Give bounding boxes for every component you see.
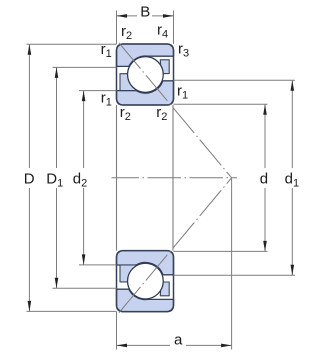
svg-text:r2: r2 bbox=[156, 104, 167, 123]
d dimension bottom arrow bbox=[263, 241, 267, 252]
B dimension line bbox=[117, 15, 138, 17]
d extension line top bbox=[174, 103, 268, 105]
a dimension right arrow bbox=[221, 344, 232, 348]
D1 dimension top arrow bbox=[55, 67, 59, 78]
D dimension top arrow bbox=[28, 44, 32, 55]
svg-text:d2: d2 bbox=[73, 170, 87, 189]
contact angle line bottom bbox=[119, 178, 232, 313]
B dimension right arrow bbox=[163, 14, 174, 18]
B extension line left bbox=[116, 11, 118, 45]
svg-text:r2: r2 bbox=[121, 23, 132, 42]
svg-text:d: d bbox=[260, 170, 268, 187]
d2 extension line bottom bbox=[79, 264, 117, 266]
svg-text:D1: D1 bbox=[46, 170, 63, 189]
axis centerline bbox=[112, 177, 238, 179]
D1 extension line top bbox=[53, 66, 117, 68]
d1 dimension top arrow bbox=[291, 80, 295, 91]
svg-text:r1: r1 bbox=[101, 89, 112, 108]
d1 dimension line bbox=[291, 80, 293, 168]
d dimension line bbox=[264, 104, 266, 168]
D extension line top bbox=[27, 43, 117, 45]
d dimension top arrow bbox=[263, 104, 267, 115]
pressure-centre vertical line bbox=[231, 179, 233, 350]
svg-text:r1: r1 bbox=[177, 83, 188, 102]
svg-text:D: D bbox=[24, 170, 35, 187]
d1 extension line bottom bbox=[174, 274, 296, 276]
D dimension line bbox=[28, 44, 30, 168]
D dimension bottom arrow bbox=[28, 301, 32, 312]
a extension line left bbox=[116, 312, 118, 350]
D1 dimension line bbox=[56, 67, 58, 168]
D1 dimension bottom arrow bbox=[55, 278, 59, 289]
svg-text:r3: r3 bbox=[178, 41, 189, 60]
d2 extension line top bbox=[79, 90, 117, 92]
svg-text:B: B bbox=[140, 4, 150, 21]
bore silhouette left line bbox=[116, 105, 118, 251]
svg-text:r4: r4 bbox=[157, 22, 168, 41]
bore silhouette right line bbox=[172, 105, 174, 251]
d2 dimension top arrow bbox=[82, 91, 86, 102]
a dimension line bbox=[117, 344, 171, 346]
D extension line bottom bbox=[27, 310, 117, 312]
B extension line right bbox=[173, 11, 175, 45]
top bearing section bbox=[117, 44, 174, 105]
svg-text:r2: r2 bbox=[120, 104, 131, 123]
d1 extension line top bbox=[174, 79, 296, 81]
d2 dimension line bbox=[83, 91, 85, 168]
d1 dimension bottom arrow bbox=[291, 265, 295, 276]
B dimension left arrow bbox=[117, 14, 128, 18]
bottom bearing section (mirrored) bbox=[117, 251, 174, 312]
a dimension left arrow bbox=[117, 344, 128, 348]
d extension line bottom bbox=[174, 250, 268, 252]
d2 dimension bottom arrow bbox=[82, 254, 86, 265]
D1 extension line bottom bbox=[53, 287, 117, 289]
svg-text:a: a bbox=[174, 332, 183, 349]
svg-text:d1: d1 bbox=[285, 170, 299, 189]
contact angle line top bbox=[119, 43, 232, 178]
